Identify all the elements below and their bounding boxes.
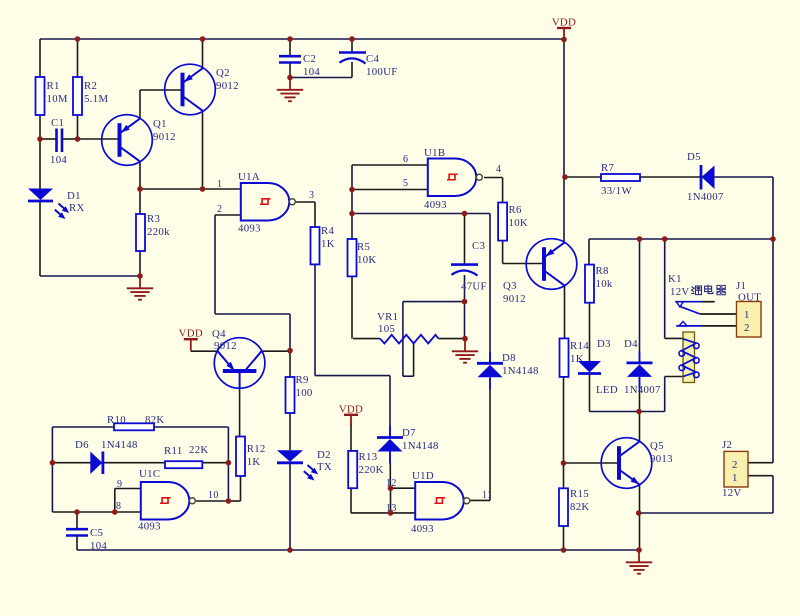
wire R4 top <box>314 202 316 227</box>
wire pin10 to R12 <box>228 500 240 502</box>
transistor Q1 <box>102 115 176 166</box>
relay K1 coil <box>670 285 726 383</box>
wire pin12 to pin13 <box>390 488 392 513</box>
wire J2 pin2 drop <box>772 239 774 463</box>
wire Q1 base <box>78 138 120 140</box>
wire down to Q4 node <box>289 314 291 351</box>
junction <box>37 136 43 142</box>
svg-text:D2: D2 <box>317 449 331 461</box>
power VDD <box>339 403 363 426</box>
svg-text:4093: 4093 <box>138 521 161 533</box>
svg-text:Q4: Q4 <box>212 328 226 340</box>
wire R1 top <box>39 39 41 77</box>
svg-text:C4: C4 <box>366 53 380 65</box>
svg-text:22K: 22K <box>189 444 209 456</box>
wire coil bottom vertical <box>664 377 666 412</box>
svg-text:K1: K1 <box>668 273 682 285</box>
svg-text:1K: 1K <box>247 456 261 468</box>
resistor R2 <box>73 77 108 115</box>
wire wiper bottom <box>403 375 414 377</box>
net VDD vertical <box>563 39 565 243</box>
svg-text:J1: J1 <box>736 280 746 292</box>
junction <box>75 36 81 42</box>
svg-text:R6: R6 <box>509 204 523 216</box>
svg-text:D3: D3 <box>597 338 611 350</box>
junction <box>287 547 293 553</box>
capacitor C3 <box>451 240 487 293</box>
svg-text:1N4007: 1N4007 <box>687 191 724 203</box>
wire node to U1A pin1 <box>140 188 240 190</box>
wire R11 right <box>202 462 228 464</box>
junction <box>636 547 642 553</box>
svg-text:U1C: U1C <box>139 468 160 480</box>
nand gate U1D <box>411 470 470 535</box>
resistor R8 <box>585 265 613 303</box>
svg-text:R1: R1 <box>47 80 60 92</box>
svg-text:104: 104 <box>303 66 320 78</box>
wire R6 top <box>502 178 504 203</box>
wire VR1 left <box>353 338 380 340</box>
svg-text:104: 104 <box>90 540 107 552</box>
svg-text:100UF: 100UF <box>366 66 398 78</box>
wire R1 bottom <box>39 115 41 139</box>
junction <box>462 336 468 342</box>
wire VR1 right <box>439 338 466 340</box>
wire U1D pin11 <box>470 499 490 501</box>
junction <box>137 186 143 192</box>
junction <box>462 299 468 305</box>
wire D5 out <box>715 176 774 178</box>
ground <box>127 276 153 300</box>
resistor R5 <box>348 239 377 276</box>
resistor R15 <box>559 488 590 526</box>
junction <box>770 236 776 242</box>
wire to R7 <box>565 176 601 178</box>
potentiometer VR1 <box>377 311 439 344</box>
wire left loop vertical <box>51 427 53 512</box>
junction <box>349 211 355 217</box>
svg-text:4: 4 <box>496 164 501 175</box>
wire Q4 collector out <box>262 350 290 352</box>
junction <box>349 187 355 193</box>
power VDD <box>179 328 203 351</box>
svg-text:J2: J2 <box>722 439 732 451</box>
wire D4 bottom lead <box>639 389 641 412</box>
svg-text:4093: 4093 <box>411 523 434 535</box>
svg-text:10K: 10K <box>357 254 377 266</box>
wire pin2 vertical <box>214 215 216 314</box>
wire C5 top <box>76 512 78 529</box>
svg-text:VR1: VR1 <box>377 311 398 323</box>
svg-text:3: 3 <box>309 190 314 201</box>
diode D3 LED <box>578 338 618 396</box>
ground <box>452 339 478 363</box>
wire D1 to R3 node <box>40 275 140 277</box>
wire D7 bottom <box>389 464 391 489</box>
svg-text:9: 9 <box>117 479 122 490</box>
wire C4 bottom <box>351 62 353 78</box>
wire R15 bottom <box>563 526 565 550</box>
wire R14 to R15 <box>563 377 565 488</box>
svg-text:OUT: OUT <box>738 292 761 304</box>
wire pin9 loop <box>114 489 116 513</box>
svg-text:C3: C3 <box>472 240 485 252</box>
ground <box>277 78 303 102</box>
wire R3 top <box>139 189 141 214</box>
net oscillator rail <box>352 213 490 215</box>
diode D8 1N4148 <box>477 352 539 390</box>
nand gate U1C <box>138 468 195 533</box>
wire R5 bottom <box>351 276 353 338</box>
wire R6 bottom <box>502 241 504 264</box>
wire R3 bottom <box>139 251 141 276</box>
svg-text:104: 104 <box>50 154 67 166</box>
wire Q4 base down <box>239 388 241 437</box>
junction <box>287 36 293 42</box>
svg-text:2: 2 <box>744 322 750 334</box>
wire R8 top <box>588 239 590 265</box>
junction <box>636 409 642 415</box>
wire D6 left <box>52 462 91 464</box>
junction <box>562 174 568 180</box>
junction <box>74 509 80 515</box>
svg-text:D5: D5 <box>687 151 701 163</box>
transistor Q2 <box>165 64 239 115</box>
svg-text:47UF: 47UF <box>461 281 487 293</box>
wire VDD to R13 <box>350 423 352 451</box>
junction <box>561 37 567 43</box>
diode D5 1N4007 <box>687 151 724 203</box>
svg-text:9012: 9012 <box>503 293 526 305</box>
svg-text:VDD: VDD <box>552 17 576 29</box>
svg-text:10: 10 <box>208 490 219 501</box>
wire D2 bottom <box>289 464 291 551</box>
wire D6 to R11 <box>103 462 165 464</box>
junction <box>462 211 468 217</box>
svg-text:D4: D4 <box>624 338 638 350</box>
wire down to D8 <box>489 214 491 353</box>
svg-text:TX: TX <box>317 461 332 473</box>
pin labels U1A <box>217 179 314 215</box>
capacitor C4 <box>339 53 398 79</box>
wire VDD Q4 stub <box>190 349 192 352</box>
svg-text:R8: R8 <box>596 265 609 277</box>
wire C4 top <box>351 39 353 53</box>
wire Q5 collector <box>639 412 641 443</box>
svg-text:RX: RX <box>69 202 85 214</box>
svg-text:C2: C2 <box>303 53 316 65</box>
svg-text:D7: D7 <box>402 427 416 439</box>
power VDD <box>552 17 576 40</box>
svg-text:U1B: U1B <box>424 147 445 159</box>
junction <box>636 510 642 516</box>
wire U1D pin13 <box>391 512 415 514</box>
wire C1 left <box>40 138 56 140</box>
wire pin2 horizontal <box>215 313 290 315</box>
diode D6 1N4148 <box>75 439 138 474</box>
svg-text:11: 11 <box>482 490 492 501</box>
svg-text:12: 12 <box>386 478 397 489</box>
connector J1 <box>736 280 761 337</box>
wire U1B pin6 <box>352 164 427 166</box>
wire R2 top <box>77 39 79 77</box>
junction <box>388 485 394 491</box>
wire Q3 base <box>503 263 543 265</box>
svg-text:1N4148: 1N4148 <box>402 440 439 452</box>
wire Q2 emitter to rail <box>202 39 204 68</box>
wire D1 bottom <box>39 202 41 277</box>
svg-text:LED: LED <box>596 384 618 396</box>
transistor Q5 <box>601 438 673 489</box>
net ground bottom rail <box>77 549 639 551</box>
svg-text:12V: 12V <box>722 487 742 499</box>
svg-text:R9: R9 <box>296 374 309 386</box>
svg-text:C5: C5 <box>90 527 103 539</box>
capacitor C1 <box>50 117 67 166</box>
wire coil top vertical <box>664 239 666 338</box>
svg-text:R2: R2 <box>84 80 97 92</box>
svg-text:1N4148: 1N4148 <box>101 439 138 451</box>
resistor R12 <box>236 437 266 477</box>
wire U1C pin9 <box>115 488 140 490</box>
junction <box>226 498 232 504</box>
wire Q1 emitter up <box>139 90 141 119</box>
svg-text:R15: R15 <box>570 488 589 500</box>
svg-text:Q5: Q5 <box>650 440 664 452</box>
svg-text:Q3: Q3 <box>503 280 517 292</box>
wire D3 bottom <box>589 374 591 412</box>
svg-text:82K: 82K <box>570 501 590 513</box>
nand gate U1B <box>424 147 482 211</box>
wire C1 right <box>62 138 78 140</box>
svg-text:6: 6 <box>403 154 408 165</box>
wire coil bottom elbow <box>665 376 683 378</box>
wire J2 pin1 stub <box>748 475 773 477</box>
svg-text:33/1W: 33/1W <box>601 185 632 197</box>
svg-text:9012: 9012 <box>216 80 239 92</box>
junction <box>75 136 81 142</box>
wire Q4 emitter in <box>191 350 217 352</box>
svg-text:2: 2 <box>732 459 738 471</box>
wire U1A pin2 stub <box>215 214 240 216</box>
capacitor C2 <box>279 53 320 78</box>
svg-text:4093: 4093 <box>424 199 447 211</box>
svg-text:Q2: Q2 <box>216 67 230 79</box>
resistor R9 <box>286 374 313 413</box>
junction <box>662 236 668 242</box>
capacitor C5 <box>66 527 107 552</box>
wire C2 bottom <box>289 63 291 78</box>
svg-text:220k: 220k <box>147 226 170 238</box>
wire Q5 base <box>564 462 619 464</box>
junction <box>226 460 232 466</box>
svg-text:Q1: Q1 <box>153 118 167 130</box>
net VDD top rail <box>40 38 564 40</box>
svg-text:VDD: VDD <box>339 403 363 415</box>
transistor Q3 <box>503 239 577 305</box>
wire R13 to pin13 <box>351 512 391 514</box>
wire R8 to D3 <box>589 303 591 361</box>
svg-text:10K: 10K <box>509 217 529 229</box>
wire C5 bottom <box>76 536 78 551</box>
wire U1B pin4 <box>484 177 503 179</box>
resistor R11 <box>164 444 209 468</box>
resistor R3 <box>136 213 170 251</box>
wire wiper drop <box>413 344 415 377</box>
svg-text:220K: 220K <box>359 464 384 476</box>
svg-text:105: 105 <box>378 323 395 335</box>
junction <box>112 509 118 515</box>
svg-text:U1D: U1D <box>412 470 434 482</box>
svg-text:1K: 1K <box>321 238 335 250</box>
wire J2 pin1 drop <box>772 476 774 513</box>
svg-text:C1: C1 <box>51 117 64 129</box>
ground <box>626 550 652 574</box>
pin labels U1D <box>386 478 492 514</box>
diode D2 TX LED <box>277 449 332 481</box>
resistor R7 <box>601 162 640 197</box>
wire C2-C4 bottom link <box>290 77 352 79</box>
net Q5 collector rail <box>590 411 665 413</box>
wire right loop vertical <box>227 427 229 501</box>
wire U1C pin8 line <box>52 511 140 513</box>
svg-text:R4: R4 <box>321 225 335 237</box>
svg-text:R12: R12 <box>247 443 266 455</box>
wire R7 to D5 <box>640 176 701 178</box>
svg-text:D6: D6 <box>75 439 89 451</box>
wire R13 bottom <box>350 488 352 513</box>
svg-text:R14: R14 <box>570 340 589 352</box>
svg-text:8: 8 <box>116 501 121 512</box>
resistor R10 <box>107 414 165 430</box>
net U1B input vertical <box>351 165 353 239</box>
junction <box>287 75 293 81</box>
wire U1D pin12 <box>391 487 415 489</box>
svg-text:1: 1 <box>732 472 738 484</box>
net relay rail <box>589 238 773 240</box>
junction <box>561 547 567 553</box>
wire Q2 collector down <box>202 111 204 189</box>
wire wiper left vertical <box>402 302 404 377</box>
svg-text:4093: 4093 <box>238 223 261 235</box>
relay K1 contacts <box>668 273 737 326</box>
svg-text:R3: R3 <box>147 213 160 225</box>
wire D1 top <box>39 139 41 189</box>
wire D4 top lead <box>639 239 641 352</box>
wire U1B pin5 <box>352 189 427 191</box>
resistor R6 <box>498 203 528 241</box>
diode D4 1N4007 <box>624 338 661 396</box>
wire C3 bottom lead <box>464 275 466 339</box>
resistor R4 <box>311 225 335 264</box>
wire wiper top <box>403 301 465 303</box>
svg-text:5.1M: 5.1M <box>84 93 108 105</box>
wire J2 pin2 stub <box>748 462 773 464</box>
connector J2 <box>722 439 748 499</box>
junction <box>388 510 394 516</box>
svg-text:12V: 12V <box>670 286 690 298</box>
svg-text:5: 5 <box>403 178 408 189</box>
svg-text:9013: 9013 <box>650 453 673 465</box>
net J2 pin1 link <box>639 512 773 514</box>
wire coil top elbow <box>665 337 683 339</box>
svg-text:9012: 9012 <box>153 131 176 143</box>
resistor R14 <box>560 338 590 377</box>
svg-text:1: 1 <box>217 179 222 190</box>
wire C3 top lead <box>464 214 466 265</box>
svg-text:R10: R10 <box>107 414 126 426</box>
wire R9 to D2 <box>289 413 291 450</box>
wire to D7 elbow <box>315 375 390 377</box>
svg-text:D8: D8 <box>502 352 516 364</box>
svg-text:R13: R13 <box>359 451 378 463</box>
wire D8 bottom lead <box>489 389 491 500</box>
wire Q5 emitter down <box>639 484 641 550</box>
wire R2 bottom <box>77 115 79 139</box>
nand gate U1A <box>238 171 295 235</box>
pin labels U1C <box>116 479 219 512</box>
svg-text:13: 13 <box>386 503 397 514</box>
junction <box>561 460 567 466</box>
svg-text:1: 1 <box>744 309 750 321</box>
net R10 top loop <box>52 426 228 428</box>
wire R12 bottom <box>240 476 242 501</box>
wire Q2 base <box>140 89 182 91</box>
junction <box>137 273 143 279</box>
svg-text:82K: 82K <box>145 414 165 426</box>
diode D7 1N4148 <box>377 426 439 464</box>
junction <box>50 460 56 466</box>
wire U1A pin3 <box>296 201 315 203</box>
svg-text:10M: 10M <box>47 93 68 105</box>
wire R4 bottom chain <box>314 264 316 375</box>
pin labels U1B <box>403 154 501 189</box>
svg-text:R11: R11 <box>164 445 183 457</box>
wire R9 top <box>289 351 291 377</box>
resistor R13 <box>348 451 384 488</box>
junction <box>349 36 355 42</box>
junction <box>287 348 293 354</box>
svg-text:1N4007: 1N4007 <box>624 384 661 396</box>
junction <box>200 36 206 42</box>
svg-text:1N4148: 1N4148 <box>502 365 539 377</box>
svg-text:10k: 10k <box>596 278 613 290</box>
svg-text:R7: R7 <box>601 162 615 174</box>
wire C2 top <box>289 39 291 56</box>
diode D1 RX LED <box>28 189 85 220</box>
wire right edge down <box>772 177 774 239</box>
svg-text:D1: D1 <box>67 190 81 202</box>
svg-text:U1A: U1A <box>238 171 260 183</box>
svg-text:9012: 9012 <box>214 340 237 352</box>
junction <box>200 186 206 192</box>
wire U1C pin10 <box>196 500 229 502</box>
junction <box>637 236 643 242</box>
svg-text:100: 100 <box>296 387 313 399</box>
transistor Q4 <box>212 328 265 388</box>
wire Q1 collector down <box>139 161 141 189</box>
svg-text:VDD: VDD <box>179 328 203 340</box>
wire Q3 collector to R14 <box>564 286 566 339</box>
svg-text:2: 2 <box>217 204 222 215</box>
svg-text:R5: R5 <box>357 241 370 253</box>
resistor R1 <box>36 77 68 115</box>
wire D7 top lead <box>389 376 391 427</box>
